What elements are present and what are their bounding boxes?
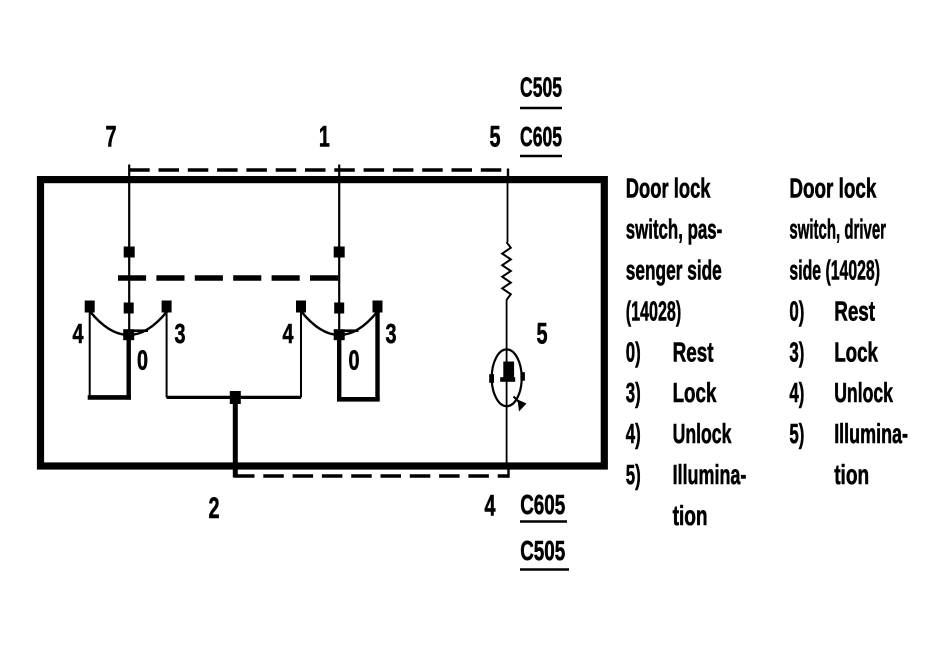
svg-text:C505: C505 [520,71,562,102]
legend: door lock switch, passenger side [626,173,747,531]
svg-text:Rest: Rest [673,336,714,367]
S2 wiper pivot dot [334,329,345,340]
svg-text:4: 4 [283,318,294,349]
junction dot on pin 1 wire [334,247,345,258]
wire: node down to pin 2 [233,398,238,478]
S1 post 3 lead [166,310,168,398]
S2 common post (top dot) [334,303,344,314]
wire: pin 1 down to switch S2 common [338,165,340,337]
svg-text:3: 3 [386,318,397,349]
svg-text:Unlock: Unlock [673,418,732,449]
wire: S1 post 4 to common (bottom U) [88,395,131,400]
svg-text:C605: C605 [520,489,565,520]
svg-text:side (14028): side (14028) [789,255,880,286]
legend: door lock switch, driver side [789,173,908,490]
svg-text:4: 4 [485,490,496,523]
svg-text:Illumina-: Illumina- [673,459,747,490]
svg-text:switch, driver: switch, driver [789,214,886,245]
svg-text:0: 0 [349,345,360,376]
S2 wiper arc [301,312,377,336]
svg-text:1: 1 [319,121,330,154]
S2 contact post 3 (top dot) [373,301,383,313]
S1 wiper arc tick [133,329,148,332]
svg-text:5): 5) [789,418,804,449]
connector box outline [41,180,605,466]
svg-text:Illumina-: Illumina- [834,418,908,449]
S2 wiper arc tick [344,329,359,332]
S1 common thick lead down [126,335,130,400]
svg-text:C605: C605 [520,121,562,152]
svg-text:5: 5 [537,318,548,351]
svg-text:3): 3) [789,336,804,367]
wire: pin 7 down to switch S1 common [128,165,130,337]
svg-text:Door lock: Door lock [789,173,876,204]
svg-text:5): 5) [626,459,641,490]
underline C505 (bottom) [520,568,569,571]
svg-text:Unlock: Unlock [834,377,893,408]
wire: resistor through lamp to pin 4 exit [506,300,508,466]
S2 contact post 4 (top dot) [296,301,306,313]
svg-text:switch, pas-: switch, pas- [626,214,722,245]
S2 post 3 thick lead [375,310,379,400]
svg-text:(14028): (14028) [626,295,681,326]
resistor R (illumination dropping resistor) [502,242,511,300]
svg-text:3): 3) [626,377,641,408]
S1 contact post 4 (top dot) [85,301,95,313]
underline C505 (top) [520,107,562,110]
switch S2 (door lock switch, driver side) [283,301,397,400]
junction dot on pin 7 wire [124,247,135,258]
wire: bottom dashed line right stub to box [507,466,509,478]
svg-text:Rest: Rest [834,295,875,326]
svg-text:Door lock: Door lock [626,173,711,204]
wire: dashed harness line, top (pins 7-1-5) [129,168,509,171]
wire: S1 post 3 - node - S2 post 4 bus [167,396,301,399]
wire: dashed harness line, bottom (pins 2-4) [234,474,509,478]
svg-text:4): 4) [626,418,641,449]
svg-text:7: 7 [106,121,117,154]
wire: dashed mechanical link between S1 and S2 commons [118,275,340,281]
svg-text:C505: C505 [520,535,565,566]
svg-text:2: 2 [209,492,220,525]
svg-text:0: 0 [137,345,148,376]
S1 wiper arc [90,312,167,336]
svg-text:0): 0) [626,336,641,367]
lamp arrow [514,397,521,404]
S1 contact post 3 (top dot) [162,301,172,313]
wire: top dashed line right stub to box [507,169,509,178]
S2 post 4 lead [300,310,302,398]
switch S1 (door lock switch, passenger side) [73,301,186,400]
underline C605 (bottom) [520,520,567,523]
svg-text:4: 4 [73,318,84,349]
svg-text:tion: tion [834,459,869,490]
svg-text:Lock: Lock [834,336,878,367]
S2 common thick lead down [337,335,341,400]
S1 wiper pivot dot [123,329,134,340]
wire: S2 common to post 3 (bottom U) [337,397,380,402]
S1 common post (top dot) [124,303,134,314]
underline C605 (top) [520,155,562,158]
svg-text:tion: tion [673,500,708,531]
svg-text:Lock: Lock [673,377,717,408]
wire: pin 5 down to resistor [507,183,509,242]
svg-text:5: 5 [490,121,501,154]
lamp L (illumination bulb) [489,349,526,411]
junction node dot to pin 2 [230,391,241,404]
svg-text:3: 3 [175,318,186,349]
svg-text:4): 4) [789,377,804,408]
svg-text:senger side: senger side [626,255,722,286]
S1 post 4 lead [89,310,91,398]
svg-text:0): 0) [789,295,804,326]
